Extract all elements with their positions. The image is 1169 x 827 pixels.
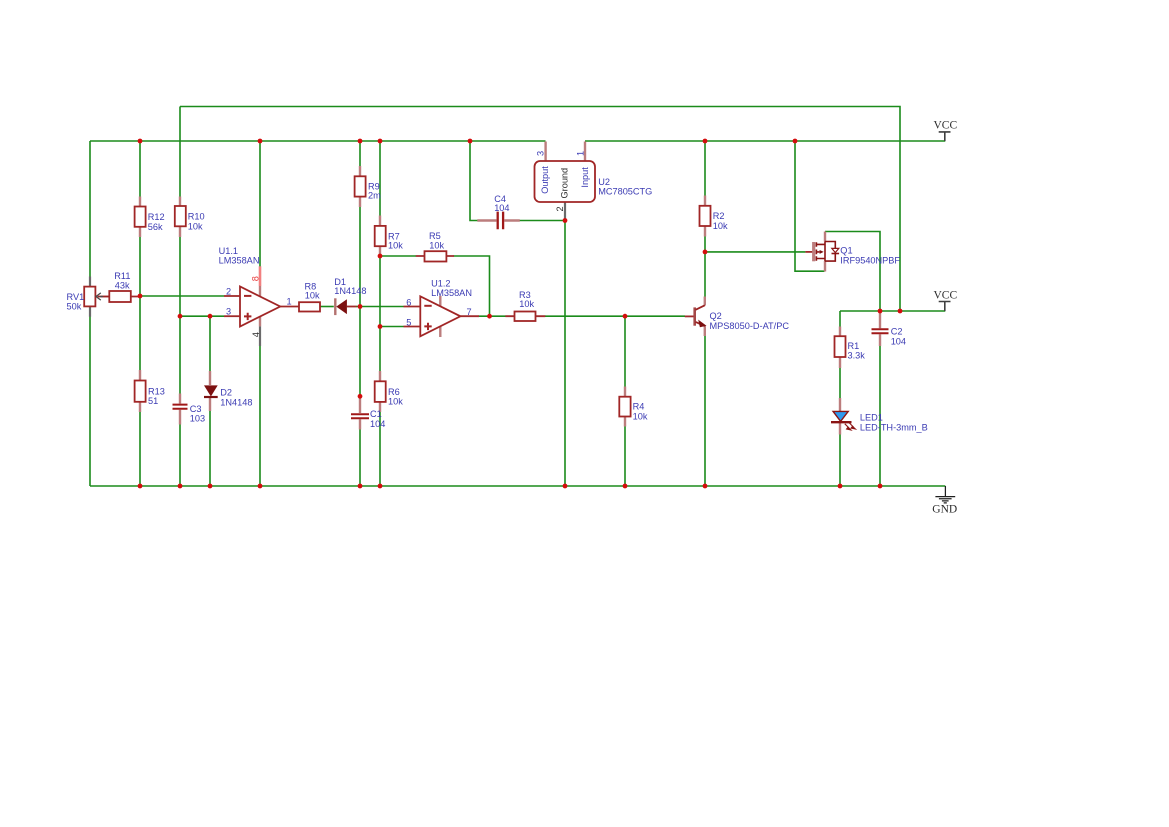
svg-text:VCC: VCC [934, 119, 958, 131]
junction bottom rail at C3 [178, 484, 183, 489]
U1.2 pin4 stub [439, 327, 441, 337]
svg-text:R13: R13 [148, 386, 165, 396]
resistor R9 pin stubs [359, 166, 361, 207]
power symbol VCC top right [939, 132, 951, 141]
junction bottom rail at D2 [208, 484, 213, 489]
R5 leads [416, 255, 454, 257]
resistor R2 pin stubs [704, 196, 706, 237]
op-amp U1.2 triangle [420, 296, 460, 336]
U1.1 pin4 gray stub [259, 326, 261, 346]
wire C3 to bottom rail [179, 424, 181, 486]
capacitor C1 plates [351, 414, 369, 418]
resistor R5 body [425, 251, 447, 261]
junction VCC rail at R2 [703, 139, 708, 144]
LED1 body [833, 411, 848, 421]
transistor Q2 emitter arrow [698, 320, 706, 328]
svg-text:R6: R6 [388, 387, 400, 397]
svg-text:MC7805CTG: MC7805CTG [598, 187, 652, 197]
svg-text:LED-TH-3mm_B: LED-TH-3mm_B [860, 422, 928, 432]
U1.1 output lead to R8 [280, 306, 299, 308]
transistor Q2 collector arm [696, 305, 705, 310]
resistor R4 pin stubs [624, 387, 626, 427]
LED1 cathode bar [831, 421, 852, 423]
resistor R7 body [375, 226, 386, 246]
svg-text:3.3k: 3.3k [848, 351, 866, 361]
junction bottom rail at R6 [378, 484, 383, 489]
wire R13 to bottom rail [139, 412, 141, 487]
junction VCC2 at C2 [878, 309, 883, 314]
resistor R6 pin stubs [379, 371, 381, 412]
U1.1 pin2 lead [224, 295, 240, 297]
svg-text:R11: R11 [114, 271, 130, 281]
mosfet Q1 connector vertical [824, 242, 826, 262]
wire pin6 row from D1 node [360, 306, 404, 308]
svg-text:R1: R1 [848, 341, 860, 351]
ground symbol GND [935, 486, 955, 503]
capacitor C2 plates [872, 329, 889, 333]
svg-text:C3: C3 [190, 404, 202, 414]
junction VCC rail at C4 branch [468, 139, 473, 144]
mosfet Q1 drain source body stubs [816, 244, 825, 258]
resistor R1 body [835, 336, 846, 357]
capacitor C3 pin stubs [179, 394, 181, 425]
wire Q1 source return to VCC rail [795, 141, 825, 271]
wire left column below RV1 [89, 317, 91, 487]
resistor R10 pin stubs [179, 197, 181, 238]
potentiometer RV1 wiper arrow [101, 296, 110, 298]
wire R7 bottom node to pin5 node [379, 256, 381, 327]
svg-text:104: 104 [370, 419, 385, 429]
wire R12 column to node A [139, 237, 141, 297]
power symbol VCC mid right [939, 302, 951, 312]
svg-text:Ground: Ground [560, 168, 570, 199]
junction R4 top [623, 314, 628, 319]
junction pin5 node [378, 324, 383, 329]
svg-text:1: 1 [576, 151, 586, 156]
wire LED to bottom rail [839, 434, 841, 486]
junction bottom rail at C2 [878, 484, 883, 489]
U2 pin 3 stub [544, 142, 546, 162]
svg-text:10k: 10k [633, 411, 648, 421]
op-amp U1.1 minus sign [244, 295, 251, 297]
op-amp U1.1 plus sign [244, 313, 251, 320]
wire U1.1 pin8 column [259, 141, 261, 267]
wire gate row to Q1 [705, 251, 805, 253]
resistor R3 body [515, 312, 536, 322]
resistor R8 body [299, 302, 320, 311]
svg-text:R12: R12 [148, 212, 165, 222]
wire bottom GND rail [90, 485, 945, 487]
junction VCC2 at top rail drop [898, 309, 903, 314]
resistor R9 body [355, 176, 366, 196]
svg-text:10k: 10k [388, 241, 403, 251]
mosfet Q1 gate bar [812, 242, 815, 261]
op-amp U1.1 triangle [240, 287, 280, 327]
svg-text:104: 104 [494, 203, 509, 213]
junction gate node R2 Q2 [703, 250, 708, 255]
junction bottom rail at R13 [138, 484, 143, 489]
Q1 gate lead [805, 251, 812, 253]
svg-text:10k: 10k [305, 291, 320, 301]
wire pin3 node to C3 [179, 316, 181, 394]
svg-text:6: 6 [406, 297, 411, 307]
U1.1 pin3 lead [224, 315, 240, 317]
mosfet Q1 body diode branch [825, 242, 835, 262]
resistor R13 pin stubs [139, 370, 141, 412]
U2 pin 2 ground stub [564, 202, 566, 221]
svg-text:3: 3 [226, 307, 231, 317]
junction bottom rail at U2 ground [563, 484, 568, 489]
svg-text:10k: 10k [188, 221, 203, 231]
LED1 light arrows [845, 423, 856, 430]
junction bottom rail at LED1 [838, 484, 843, 489]
svg-text:10k: 10k [429, 240, 444, 250]
wire D1 node to C1 node [359, 307, 361, 397]
svg-text:7: 7 [467, 307, 472, 317]
wire R4 to bottom rail [624, 426, 626, 486]
R11 leads and RV1 wiper line [98, 296, 141, 298]
wire R10 column to pin3 row [179, 237, 181, 317]
resistor R10 body [175, 206, 186, 226]
svg-text:56k: 56k [148, 222, 163, 232]
wire top rail from R10 column to right drop [180, 107, 900, 312]
wire left column above RV1 [89, 141, 91, 277]
svg-text:R2: R2 [713, 211, 725, 221]
wire R10 column top [179, 107, 181, 198]
junction node A R11 R12 pin2 [138, 294, 143, 299]
svg-text:103: 103 [190, 414, 205, 424]
wire R6 to bottom rail [379, 412, 381, 487]
svg-text:104: 104 [891, 336, 906, 346]
wire R5 row left [380, 255, 416, 257]
svg-text:GND: GND [932, 503, 957, 515]
wire R5 row right and feedback drop [454, 256, 490, 316]
svg-text:51: 51 [148, 396, 158, 406]
op-amp U1.2 plus sign [424, 323, 431, 330]
capacitor C2 pin stubs [879, 311, 881, 346]
wire pin2 row [140, 295, 224, 297]
svg-text:Q2: Q2 [710, 311, 722, 321]
wire C4 to U2 ground node [520, 220, 566, 222]
junction bottom rail at R4 [623, 484, 628, 489]
junction U1.2 output feedback [487, 314, 492, 319]
svg-text:Q1: Q1 [840, 246, 852, 256]
resistor R2 body [700, 206, 711, 226]
svg-text:R10: R10 [188, 212, 205, 222]
voltage regulator U2 body [535, 161, 596, 202]
svg-text:C1: C1 [370, 409, 382, 419]
wire D1 anode to node [356, 306, 360, 308]
diode D1 body [336, 299, 347, 314]
svg-text:Output: Output [540, 166, 550, 194]
diode D2 body [204, 385, 218, 396]
wire pin3 row [180, 315, 224, 317]
U1.2 pin8 stub [439, 296, 441, 307]
U1.1 pin8 highlighted stub [259, 266, 262, 286]
svg-text:10k: 10k [519, 299, 534, 309]
U1.1 pin8 stub lower part [259, 286, 261, 297]
wire Q2 emitter to bottom rail [704, 336, 706, 487]
svg-text:C2: C2 [891, 327, 903, 337]
wire R2 column top [704, 141, 706, 196]
wire R7 column top [379, 141, 381, 216]
svg-text:2m: 2m [368, 190, 381, 200]
wire VCC2 row [840, 310, 945, 312]
diode D1 cathode bar [334, 298, 336, 315]
wire Q1 drain to VCC2 node [825, 232, 880, 312]
wire R3 to Q2 base [545, 315, 685, 317]
junction C1 top [358, 394, 363, 399]
wire gate node to Q2 collector [704, 252, 706, 297]
resistor R11 body [109, 291, 131, 302]
svg-text:10k: 10k [388, 397, 403, 407]
svg-text:LM358AN: LM358AN [219, 256, 260, 266]
diode D2 cathode bar [204, 396, 218, 398]
junction VCC rail at R12 [138, 139, 143, 144]
svg-text:2: 2 [555, 206, 565, 211]
R3 leads [505, 315, 545, 317]
svg-text:Input: Input [580, 167, 590, 188]
svg-text:MPS8050-D-AT/PC: MPS8050-D-AT/PC [710, 321, 790, 331]
wire R4 column [624, 316, 626, 387]
junction VCC rail at Q1 source column [793, 139, 798, 144]
wire C1 to bottom rail [359, 429, 361, 486]
wire U2 ground node to bottom rail [564, 221, 566, 487]
svg-text:R4: R4 [633, 402, 645, 412]
LED1 pin stubs [839, 398, 841, 435]
svg-text:U1.2: U1.2 [431, 278, 450, 288]
capacitor C3 plates [173, 405, 188, 409]
svg-text:50k: 50k [67, 301, 82, 311]
capacitor C4 leads [477, 219, 520, 221]
wire R1 to LED [839, 368, 841, 399]
svg-text:1: 1 [287, 296, 292, 306]
mosfet Q1 body arrow [820, 250, 824, 254]
wire R9 column top [359, 141, 361, 167]
Q2 base lead [685, 315, 694, 317]
wire R12 column top [139, 141, 141, 197]
diode D2 pin stubs [209, 371, 211, 411]
wire VCC rail left segment [90, 140, 546, 142]
resistor R13 body [135, 381, 146, 402]
U1.1 pin4 stub upper part [259, 317, 261, 327]
Q1 drain and source stubs [824, 232, 826, 272]
svg-text:43k: 43k [115, 281, 130, 291]
resistor R7 pin stubs [379, 216, 381, 257]
junction C4 U2 ground [563, 218, 568, 223]
svg-text:8: 8 [251, 276, 261, 281]
svg-text:4: 4 [251, 332, 261, 337]
junction VCC rail at R7 [378, 139, 383, 144]
U1.2 output lead [460, 315, 479, 317]
svg-text:1N4148: 1N4148 [220, 397, 252, 407]
mosfet Q1 body diode triangle [832, 248, 839, 252]
svg-text:10k: 10k [713, 221, 728, 231]
D1 anode lead [347, 306, 357, 308]
wire R2 to gate node [704, 236, 706, 252]
resistor R1 pin stubs [839, 327, 841, 369]
svg-text:1N4148: 1N4148 [334, 286, 366, 296]
resistor R6 body [375, 381, 386, 402]
wire U1.1 pin4 column to bottom rail [259, 346, 261, 486]
svg-text:RV1: RV1 [67, 292, 85, 302]
wire D2 to bottom rail [209, 411, 211, 487]
junction bottom rail at C1 [358, 484, 363, 489]
U2 pin 1 stub [584, 142, 586, 162]
op-amp U1.2 minus sign [424, 305, 431, 307]
svg-text:U2: U2 [598, 177, 610, 187]
resistor R12 pin stubs [139, 197, 141, 238]
potentiometer RV1 gray pin stubs [89, 277, 91, 317]
svg-text:2: 2 [226, 287, 231, 297]
capacitor C4 plates [498, 212, 503, 230]
mosfet Q1 channel segments [815, 242, 817, 261]
transistor Q2 base bar [693, 307, 696, 325]
svg-text:3: 3 [535, 151, 545, 156]
Q2 collector and emitter stubs [704, 297, 706, 337]
wire R9 to D1 node [359, 207, 361, 307]
svg-text:LM358AN: LM358AN [431, 288, 472, 298]
wire R1 branch [839, 311, 841, 327]
junction VCC rail at R9 [358, 139, 363, 144]
wire pin5 row [380, 326, 404, 328]
wire R8 to D1 segment [320, 306, 334, 308]
junction R7 R5 node [378, 254, 383, 259]
mosfet Q1 body diode bar [832, 253, 840, 255]
resistor R12 body [135, 207, 146, 227]
resistor R4 body [619, 397, 630, 417]
wire VCC rail right segment [585, 140, 945, 142]
svg-text:VCC: VCC [934, 289, 958, 301]
wire node A to R13 [139, 296, 141, 371]
junction bottom rail at Q2 emitter [703, 484, 708, 489]
wire C4 branch from rail [470, 141, 478, 221]
svg-text:IRF9540NPBF: IRF9540NPBF [840, 255, 900, 265]
wire C2 to bottom rail [879, 346, 881, 487]
junction bottom rail at U1.1 pin4 [258, 484, 263, 489]
wire pin5 node to R6 [379, 327, 381, 372]
junction D1 node at R9 column [358, 304, 363, 309]
wire U1.2 output to R3 [479, 315, 506, 317]
svg-text:D2: D2 [220, 388, 232, 398]
svg-text:LED1: LED1 [860, 413, 883, 423]
capacitor C1 pin stubs [359, 396, 361, 430]
junction pin3 row at R10 column [178, 314, 183, 319]
U1.2 pin6 lead [404, 306, 421, 308]
transistor Q2 emitter arm [696, 322, 705, 326]
wire D2 column top [209, 316, 211, 371]
junction pin3 row at D2 [208, 314, 213, 319]
U1.2 pin5 lead [404, 326, 421, 328]
potentiometer RV1 body [84, 287, 95, 307]
svg-text:5: 5 [406, 318, 411, 328]
junction VCC rail at U1.1 pin8 [258, 139, 263, 144]
